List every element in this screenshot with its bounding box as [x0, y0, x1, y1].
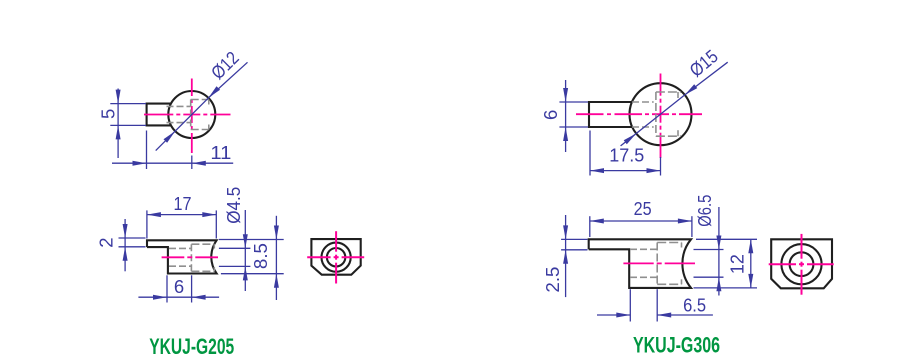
svg-text:11: 11 [210, 142, 231, 163]
svg-text:5: 5 [98, 109, 119, 119]
svg-text:Ø6.5: Ø6.5 [694, 195, 715, 227]
svg-text:25: 25 [634, 198, 652, 219]
svg-text:2: 2 [95, 237, 116, 247]
svg-text:17: 17 [174, 193, 192, 214]
svg-text:12: 12 [727, 254, 748, 274]
svg-text:Ø4.5: Ø4.5 [223, 187, 244, 224]
svg-text:6.5: 6.5 [683, 294, 706, 315]
svg-text:8.5: 8.5 [250, 243, 271, 269]
svg-text:Ø12: Ø12 [207, 47, 243, 83]
svg-text:17.5: 17.5 [609, 145, 644, 166]
svg-text:YKUJ-G306: YKUJ-G306 [633, 333, 720, 358]
svg-text:YKUJ-G205: YKUJ-G205 [149, 334, 234, 359]
svg-text:6: 6 [174, 276, 184, 297]
svg-text:2.5: 2.5 [542, 267, 563, 293]
svg-text:Ø15: Ø15 [685, 45, 721, 80]
svg-text:6: 6 [540, 110, 561, 120]
